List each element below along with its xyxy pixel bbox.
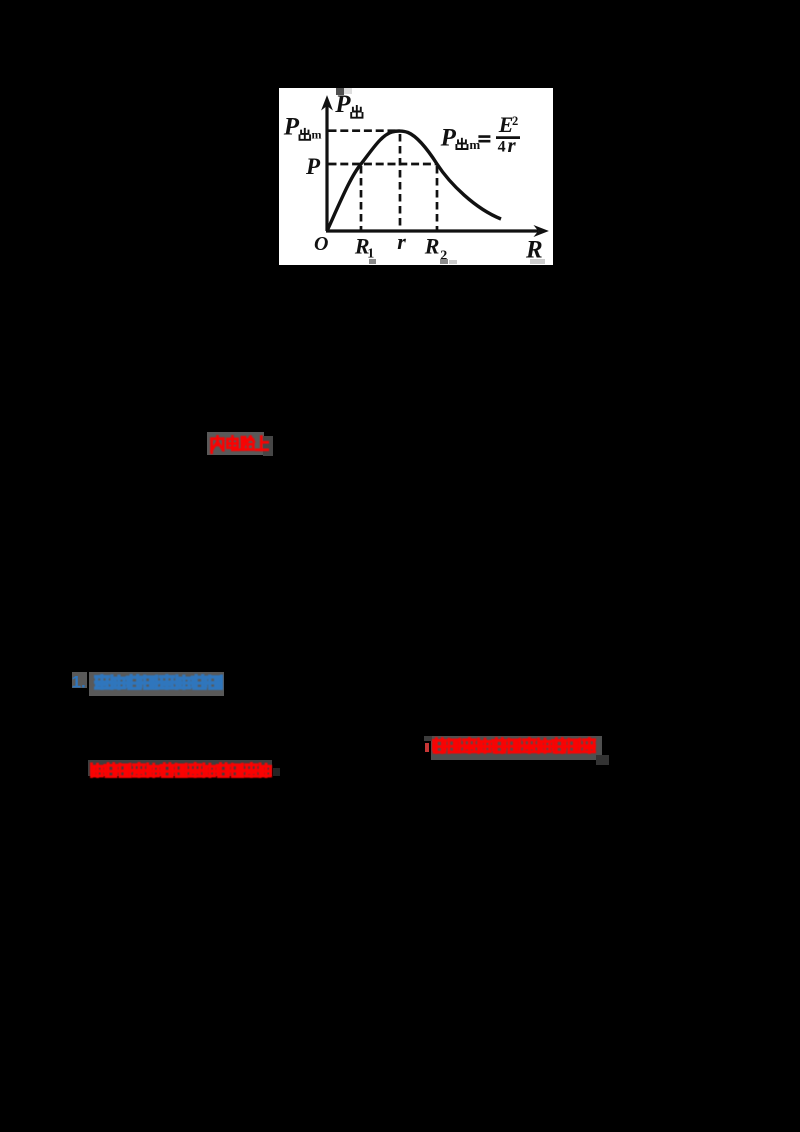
svg-text:m: m bbox=[469, 137, 480, 152]
gray highlight behind heading number bbox=[72, 672, 87, 688]
dashed vertical at R1 bbox=[360, 166, 363, 230]
dashed line at P_out_max level bbox=[329, 129, 400, 132]
svg-text:r: r bbox=[508, 133, 517, 157]
dark period mark bbox=[273, 768, 280, 776]
svg-text:P: P bbox=[283, 114, 300, 141]
svg-text:R: R bbox=[424, 234, 440, 259]
gray highlight band behind red annotation 2 bbox=[88, 760, 272, 777]
blue heading text (8 CJK glyphs) bbox=[94, 674, 224, 691]
svg-text:O: O bbox=[314, 233, 328, 255]
svg-text:P: P bbox=[305, 154, 321, 179]
svg-text:1.: 1. bbox=[72, 673, 86, 692]
y-axis with arrow bbox=[322, 97, 332, 232]
dashed vertical at r bbox=[399, 134, 402, 230]
red annotation 1 (11 CJK glyphs) bbox=[432, 737, 597, 754]
x-axis with arrow bbox=[326, 226, 548, 236]
red annotation 2 (13 CJK glyphs) bbox=[90, 762, 272, 779]
gray highlight band behind red annotation 1 bbox=[431, 736, 602, 760]
svg-text:P: P bbox=[440, 125, 457, 152]
gray highlight behind red phrase bbox=[207, 432, 264, 455]
gray highlight behind heading text bbox=[89, 672, 224, 696]
red phrase: internal-circuit (4 CJK glyphs) bbox=[210, 435, 270, 454]
svg-text:2: 2 bbox=[512, 114, 518, 128]
dashed line at P level bbox=[329, 163, 437, 166]
svg-text:r: r bbox=[397, 229, 406, 254]
svg-text:4: 4 bbox=[498, 139, 506, 156]
power curve bbox=[327, 131, 501, 231]
heading number 1. bbox=[69, 672, 89, 692]
chart panel: output power P_out vs external resistance R bbox=[279, 88, 553, 265]
svg-text:P: P bbox=[334, 91, 351, 118]
svg-text:m: m bbox=[312, 128, 322, 142]
dashed vertical at R2 bbox=[436, 166, 439, 230]
